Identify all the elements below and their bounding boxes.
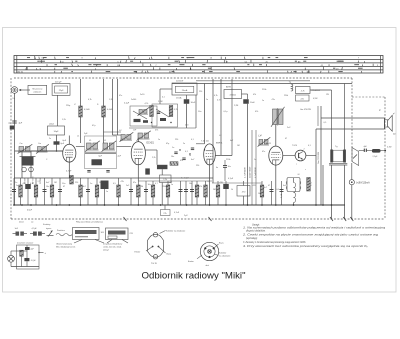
osc padder marks xyxy=(134,119,141,122)
svg-text:EL41: EL41 xyxy=(266,143,272,145)
dial scale tick marks xyxy=(26,56,373,72)
choke coil vert xyxy=(294,183,296,188)
svg-text:1. Na schematach podano odbior: 1. Na schematach podano odbiorników połą… xyxy=(243,227,386,230)
svg-text:1n: 1n xyxy=(171,184,173,186)
oscillator loop 1 xyxy=(130,106,157,126)
capacitor C1 xyxy=(12,120,16,122)
dial scale row line 1 xyxy=(14,58,383,60)
svg-text:2x500: 2x500 xyxy=(131,99,136,101)
svg-text:4,7k: 4,7k xyxy=(214,95,218,97)
resistor R3 xyxy=(70,176,74,185)
dropper feed wire xyxy=(160,88,172,90)
arrow to antenna xyxy=(19,89,30,91)
svg-text:1n: 1n xyxy=(206,99,208,101)
svg-text:ECH21: ECH21 xyxy=(147,143,155,145)
svg-text:47k: 47k xyxy=(253,94,256,96)
label sprinkle xyxy=(13,89,397,171)
output transformer flap xyxy=(352,148,359,166)
svg-text:trymer: trymer xyxy=(46,227,52,230)
svg-text:Gw 470Ω/2W: Gw 470Ω/2W xyxy=(318,152,320,164)
label sprinkle 2 xyxy=(16,91,329,195)
svg-text:1k: 1k xyxy=(231,189,233,191)
T1 padding capacitor xyxy=(91,160,102,166)
wire xfmr top right xyxy=(344,84,346,150)
L2 coil xyxy=(138,133,142,138)
wire bus x247 xyxy=(247,104,249,205)
wire tuner left xyxy=(14,151,16,205)
wire battery up xyxy=(351,163,353,180)
svg-text:47µF: 47µF xyxy=(27,210,33,212)
pilot lamp xyxy=(8,255,15,262)
svg-text:220nF/160V: 220nF/160V xyxy=(250,166,252,178)
wire V2 top xyxy=(137,138,139,142)
dropper inner box xyxy=(175,86,194,92)
svg-text:4,7k: 4,7k xyxy=(174,109,178,111)
svg-text:47n: 47n xyxy=(133,182,136,184)
wire V3 down xyxy=(209,165,211,205)
socket leader 1 xyxy=(214,244,219,248)
dial scale left end bar xyxy=(16,56,18,74)
svg-text:3. Zamiany z kondensatorową to: 3. Zamiany z kondensatorową tolerancją m… xyxy=(243,241,306,244)
svg-text:cewki, kierunk. obud.: cewki, kierunk. obud. xyxy=(103,247,122,249)
svg-text:Uwagi:: Uwagi: xyxy=(252,223,260,226)
svg-text:2x 4,7µF: 2x 4,7µF xyxy=(181,178,190,180)
svg-text:długości dodatków.: długości dodatków. xyxy=(246,230,266,233)
wire xfmr left down xyxy=(322,165,324,205)
svg-text:10nF: 10nF xyxy=(250,102,255,104)
svg-text:Kolektor: Kolektor xyxy=(219,252,227,255)
dark resistor block mid xyxy=(157,165,168,169)
IF transformer T1 screen xyxy=(85,136,117,169)
wire tuner vertical b xyxy=(30,151,32,178)
oscillator loop 2 xyxy=(152,104,178,127)
svg-text:4,7µF: 4,7µF xyxy=(31,260,37,262)
wire T1 to V2 xyxy=(117,146,132,148)
svg-text:4,7µF: 4,7µF xyxy=(228,178,234,180)
svg-text:Z₁: Z₁ xyxy=(74,104,76,106)
page sheet border xyxy=(3,28,397,293)
svg-text:Kolektor na obudowie: Kolektor na obudowie xyxy=(166,229,186,232)
T1 trimmer cap a xyxy=(87,170,90,172)
svg-text:470: 470 xyxy=(253,185,256,187)
wire battery down xyxy=(351,185,353,219)
tuning gang block xyxy=(22,157,34,166)
svg-text:10n: 10n xyxy=(198,111,201,113)
svg-text:Cw: Cw xyxy=(20,143,24,145)
svg-text:1n: 1n xyxy=(254,159,256,161)
wire lower rail mid xyxy=(138,180,212,182)
svg-text:TG70: TG70 xyxy=(292,145,298,147)
svg-text:1,2k: 1,2k xyxy=(109,99,113,101)
svg-text:220k: 220k xyxy=(284,95,288,97)
svg-text:Zasilanie sieciowe: Zasilanie sieciowe xyxy=(16,243,34,245)
svg-text:220p: 220p xyxy=(66,105,70,107)
svg-text:4,7k: 4,7k xyxy=(145,103,149,105)
wire mid horizontal y128 xyxy=(129,127,196,129)
svg-text:47: 47 xyxy=(63,186,65,188)
svg-text:47n: 47n xyxy=(272,99,275,101)
wire V2 down xyxy=(137,165,139,181)
resistor Z2 xyxy=(102,106,106,117)
svg-text:4. Przy elementach bez odnośni: 4. Przy elementach bez odnośnika przewod… xyxy=(243,245,368,248)
small parts between stages xyxy=(174,151,177,153)
svg-text:1n: 1n xyxy=(90,183,92,185)
tube V3 xyxy=(204,144,216,165)
capacitor C11 blob xyxy=(243,99,249,104)
wire V2 right xyxy=(145,149,157,151)
wire bus x103 xyxy=(103,79,105,147)
svg-text:4,7: 4,7 xyxy=(155,183,158,185)
svg-text:47k: 47k xyxy=(121,181,124,183)
svg-text:2,2k: 2,2k xyxy=(152,157,156,159)
AVC box 470k xyxy=(224,90,242,99)
wire x318 xyxy=(317,106,319,126)
T1 core lines xyxy=(85,151,116,153)
T1 secondary coil xyxy=(103,143,108,149)
package hole bottom xyxy=(153,255,157,259)
svg-text:Zespół przekladnikow: Zespół przekladnikow xyxy=(103,244,123,246)
antenna socket circle xyxy=(11,87,18,94)
svg-text:10µF: 10µF xyxy=(53,131,59,133)
svg-text:4,7k: 4,7k xyxy=(301,90,305,92)
svg-text:Emiter: Emiter xyxy=(135,251,141,254)
gang rotor circle 2 xyxy=(29,167,34,172)
svg-text:47k: 47k xyxy=(23,183,26,185)
wire below-bus xyxy=(164,205,166,210)
dial scale row line 2 xyxy=(14,62,383,64)
svg-text:27k: 27k xyxy=(163,213,166,215)
socket outer circle xyxy=(200,242,218,260)
wire L2 link xyxy=(113,134,122,136)
svg-text:2,2: 2,2 xyxy=(38,181,41,183)
svg-text:220: 220 xyxy=(75,182,78,184)
svg-text:2,2k: 2,2k xyxy=(163,179,167,181)
resistor Z1 xyxy=(79,106,83,117)
wire coil link top xyxy=(104,131,122,133)
wire box2 down xyxy=(57,95,59,126)
output transformer core xyxy=(333,150,343,162)
wire V4 down xyxy=(275,165,277,205)
capacitor C10 blob xyxy=(184,99,190,104)
wire V4 to TR xyxy=(283,155,295,157)
svg-text:0,1: 0,1 xyxy=(208,181,211,183)
chassis dashed border left xyxy=(10,78,12,219)
svg-text:0,1µF: 0,1µF xyxy=(124,102,130,104)
svg-text:1n: 1n xyxy=(262,100,264,102)
bias box mid xyxy=(160,175,172,183)
svg-text:10k: 10k xyxy=(99,182,102,184)
L2 coil secondary xyxy=(121,135,125,140)
socket leader 2 xyxy=(215,254,219,256)
svg-text:uklad: uklad xyxy=(49,124,54,126)
svg-text:Srednicy: Srednicy xyxy=(43,224,51,226)
svg-text:2x: 2x xyxy=(49,138,51,140)
series cap box xyxy=(48,126,65,135)
wire bus x232 xyxy=(231,79,233,156)
legend filter box xyxy=(73,228,100,240)
svg-text:47n: 47n xyxy=(262,151,265,153)
wire bus x213 xyxy=(212,79,214,183)
svg-text:10n: 10n xyxy=(171,156,174,158)
svg-text:1n: 1n xyxy=(189,155,191,157)
svg-text:na obudowie: na obudowie xyxy=(219,256,231,258)
electrolytic blob xyxy=(372,149,381,153)
svg-text:0,5: 0,5 xyxy=(113,183,116,185)
package leader collector xyxy=(160,231,166,234)
wire mid horizontal y178b xyxy=(212,182,262,184)
legend trimmer symbol xyxy=(47,235,54,237)
svg-text:Gw 470/2W: Gw 470/2W xyxy=(300,109,311,111)
resistor box A xyxy=(296,87,311,94)
resistor R osc a xyxy=(150,106,154,117)
svg-text:4,6kΩ: 4,6kΩ xyxy=(107,109,113,111)
svg-text:220k: 220k xyxy=(162,186,166,188)
coil Lw2 xyxy=(38,147,42,152)
svg-text:Cw: Cw xyxy=(38,143,42,145)
osc coil mark xyxy=(139,110,142,114)
svg-text:47k: 47k xyxy=(199,186,202,188)
svg-text:47n: 47n xyxy=(119,95,122,97)
svg-text:220/2W: 220/2W xyxy=(176,80,183,82)
svg-text:0,1: 0,1 xyxy=(191,139,194,141)
svg-text:Obwód wejściowy: Obwód wejściowy xyxy=(56,244,72,246)
junction tuner node xyxy=(56,150,58,152)
svg-text:1M: 1M xyxy=(237,145,240,147)
output transformer winding 1 xyxy=(330,150,333,163)
dial scale station marks xyxy=(27,58,363,72)
resistor R out xyxy=(307,178,311,192)
svg-text:4,7nF/500V: 4,7nF/500V xyxy=(244,167,246,178)
wire avc right xyxy=(242,93,248,95)
svg-text:Z₂: Z₂ xyxy=(97,104,99,106)
L4 coil lower xyxy=(259,140,263,145)
svg-text:20mA: 20mA xyxy=(182,89,188,92)
svg-text:47: 47 xyxy=(268,185,270,187)
svg-text:(+)9V/120mA: (+)9V/120mA xyxy=(356,182,370,185)
resistor R osc b xyxy=(169,106,173,117)
capacitor C right small xyxy=(363,149,365,152)
svg-text:1n: 1n xyxy=(15,182,17,184)
svg-text:4,7nF: 4,7nF xyxy=(174,212,180,214)
wire x321 xyxy=(320,106,322,205)
svg-text:10n: 10n xyxy=(258,193,261,195)
svg-text:47p: 47p xyxy=(166,143,169,145)
svg-text:(wybrałuję): (wybrałuję) xyxy=(246,238,257,240)
svg-text:0,1: 0,1 xyxy=(277,189,280,191)
socket pin 3 xyxy=(208,256,210,258)
ground bus junctions xyxy=(13,204,332,206)
wire osc vertical xyxy=(195,95,197,128)
svg-text:10n: 10n xyxy=(228,166,231,168)
pilot cap upper xyxy=(25,247,30,250)
wire xfmr right down xyxy=(344,165,346,219)
wire xfmr mid down xyxy=(331,165,333,219)
svg-text:4,7Ω: 4,7Ω xyxy=(311,181,313,186)
svg-text:2,2µF: 2,2µF xyxy=(373,156,379,158)
lower stage components xyxy=(12,178,284,205)
legend leader lines xyxy=(74,240,82,244)
svg-text:10nF: 10nF xyxy=(191,102,196,104)
resistor box 470 xyxy=(237,186,250,197)
svg-text:4,5kΩ: 4,5kΩ xyxy=(84,109,90,111)
tube V1 xyxy=(63,144,76,162)
speaker line upper xyxy=(321,117,385,119)
svg-text:4,7nF/500V: 4,7nF/500V xyxy=(255,167,257,178)
wire bus x117 xyxy=(117,79,119,135)
svg-text:4,7µF: 4,7µF xyxy=(66,171,72,173)
svg-text:Filtry posredniej czestotliwos: Filtry posredniej czestotliwosci xyxy=(76,220,103,223)
speaker line lower xyxy=(316,128,385,130)
resistor box B xyxy=(296,95,310,101)
svg-text:c: c xyxy=(305,169,306,171)
svg-text:220 µF: 220 µF xyxy=(55,82,62,84)
tube V2 xyxy=(131,142,145,165)
svg-text:2,2M: 2,2M xyxy=(234,105,239,107)
wire TR right xyxy=(306,155,316,157)
svg-text:ARW: ARW xyxy=(226,85,231,88)
svg-text:47: 47 xyxy=(285,138,287,140)
svg-text:1,2k: 1,2k xyxy=(62,119,66,121)
svg-text:2,2M: 2,2M xyxy=(158,101,163,103)
wire xfmr top left xyxy=(331,118,333,150)
T1 trimmer cap b xyxy=(106,170,109,172)
svg-text:4,7k: 4,7k xyxy=(88,99,92,101)
svg-text:47k: 47k xyxy=(255,111,258,113)
svg-text:zaklocen: zaklocen xyxy=(33,92,41,94)
wire cap row xyxy=(359,150,365,152)
tube V4 xyxy=(269,146,283,165)
package pin b xyxy=(158,246,160,248)
pilot wires xyxy=(10,251,12,255)
svg-text:4n7: 4n7 xyxy=(230,140,233,142)
dial scale row line 3 xyxy=(14,65,383,67)
coil Tg symbol xyxy=(291,84,293,86)
wire box down xyxy=(56,135,58,151)
package hole top xyxy=(153,233,157,237)
svg-text:4n: 4n xyxy=(216,167,218,169)
svg-text:220: 220 xyxy=(196,165,199,167)
HT rail xyxy=(172,83,352,85)
battery terminal circle xyxy=(349,180,354,185)
wire bus x252 xyxy=(251,130,253,205)
chassis dashed border right xyxy=(384,97,386,219)
socket pin 1 xyxy=(204,247,206,249)
socket key circle xyxy=(207,249,211,253)
T1 primary coil xyxy=(87,143,92,149)
svg-text:1W: 1W xyxy=(326,94,329,96)
svg-text:1n: 1n xyxy=(16,185,18,187)
wire bus x256 xyxy=(255,130,257,205)
socket leader 3 xyxy=(197,255,202,259)
svg-text:EBF11: EBF11 xyxy=(216,142,223,144)
svg-text:4,7n: 4,7n xyxy=(217,100,221,102)
package pin e xyxy=(152,246,154,248)
svg-text:47k: 47k xyxy=(155,129,158,131)
svg-text:470kΩ: 470kΩ xyxy=(230,94,237,96)
dial scale right end bar xyxy=(380,56,382,74)
below-bus box xyxy=(161,210,171,216)
svg-text:22µF: 22µF xyxy=(59,90,65,92)
svg-text:10n: 10n xyxy=(62,183,65,185)
coil Lw1 xyxy=(19,147,24,152)
L4 coil upper xyxy=(273,109,278,125)
svg-text:0,5W: 0,5W xyxy=(313,98,318,100)
svg-text:Odbiornik radiowy "Miki": Odbiornik radiowy "Miki" xyxy=(142,270,246,280)
svg-text:1M: 1M xyxy=(141,186,144,188)
svg-text:c: c xyxy=(296,164,297,166)
svg-text:Zwrot: Zwrot xyxy=(18,220,24,223)
socket inner circle xyxy=(204,246,215,257)
svg-text:220k: 220k xyxy=(226,159,230,161)
wire dropper down xyxy=(186,95,188,99)
chassis dashed border top xyxy=(14,77,352,79)
noise filter box FP xyxy=(28,85,47,94)
notes block xyxy=(241,223,386,248)
svg-text:2M: 2M xyxy=(213,189,216,191)
socket pin 2 xyxy=(213,247,215,249)
legend selector box xyxy=(106,228,129,240)
svg-text:47k: 47k xyxy=(180,160,183,162)
gang rotor circle 1 xyxy=(22,167,27,172)
svg-text:Średnica: Średnica xyxy=(57,229,66,232)
chassis dashed divider xyxy=(351,78,353,163)
wire bus x112 xyxy=(112,79,114,135)
transistor TR internals xyxy=(298,153,300,158)
wire antenna down xyxy=(14,93,16,151)
svg-text:0,1: 0,1 xyxy=(308,145,311,147)
wire detector jog xyxy=(196,143,205,145)
svg-text:Emiter: Emiter xyxy=(188,260,194,263)
wire V1 cathode down xyxy=(68,162,70,178)
chassis dashed jog xyxy=(352,96,385,98)
dial scale numerals xyxy=(25,58,379,74)
output transformer winding 2 xyxy=(343,150,346,163)
wire x316 xyxy=(315,129,317,205)
chassis dashed border bottom xyxy=(11,218,385,220)
wire bus x80 xyxy=(80,79,82,143)
svg-text:/7Ω: /7Ω xyxy=(130,233,134,235)
svg-text:4,7µF: 4,7µF xyxy=(32,228,38,230)
wire boxA right xyxy=(310,89,332,91)
wire V4 top xyxy=(275,125,277,147)
svg-text:2. Cewki zespołów na płycie zn: 2. Cewki zespołów na płycie znamionowe z… xyxy=(241,235,379,237)
svg-text:TG 70: TG 70 xyxy=(151,263,158,265)
choke Gl body xyxy=(287,178,300,192)
svg-text:220k: 220k xyxy=(262,89,266,91)
lower stage component labels xyxy=(15,178,287,190)
capacitor C2 blob xyxy=(54,141,60,144)
wire tuner top xyxy=(15,150,63,152)
wire tuner vertical a xyxy=(21,151,23,178)
svg-text:10n: 10n xyxy=(148,184,151,186)
dial scale row line 4 xyxy=(14,69,383,71)
transistor package outline xyxy=(148,234,164,257)
dropper outer box xyxy=(172,83,197,95)
ground bus xyxy=(14,204,345,206)
svg-text:6,3: 6,3 xyxy=(120,140,123,142)
dark coupling blob V2 xyxy=(145,168,150,174)
svg-text:odczyt: odczyt xyxy=(103,249,109,252)
svg-text:0,1W: 0,1W xyxy=(387,146,392,148)
svg-text:filtru składowej konstr.: filtru składowej konstr. xyxy=(56,246,76,249)
svg-text:10n: 10n xyxy=(46,186,49,188)
dark component x104 xyxy=(101,181,109,190)
dial scale frame xyxy=(14,56,383,74)
wire lower rail left xyxy=(14,177,213,179)
capacitor mid C12 xyxy=(223,165,227,167)
svg-text:220: 220 xyxy=(199,91,202,93)
svg-text:1M: 1M xyxy=(54,182,57,184)
